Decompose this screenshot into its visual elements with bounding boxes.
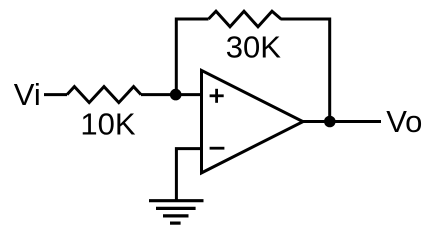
- node B (junction dot, output): [324, 116, 336, 128]
- ground: [149, 201, 204, 223]
- resistor R2 30K: [209, 11, 282, 27]
- wire feedback top right + right vertical: [281, 19, 330, 122]
- svg-text:10K: 10K: [80, 107, 135, 142]
- node A (junction dot, + input): [170, 89, 182, 101]
- op-amp U1: [202, 70, 304, 172]
- wire R1 to node A: [141, 93, 202, 96]
- wire Vi lead: [44, 93, 67, 96]
- pin label - (inverting input): [210, 147, 225, 150]
- pin label + (non-inverting input): [210, 89, 224, 103]
- svg-text:Vo: Vo: [386, 104, 422, 139]
- resistor R1 10K: [67, 87, 141, 103]
- wire inverting input to ground: [176, 149, 202, 200]
- wire feedback left vertical: [176, 19, 208, 95]
- svg-text:Vi: Vi: [14, 77, 41, 112]
- wire output: [303, 120, 381, 123]
- svg-text:30K: 30K: [226, 29, 281, 64]
